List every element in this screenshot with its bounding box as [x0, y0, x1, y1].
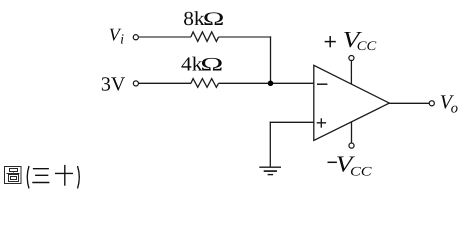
node -VCC terminal [349, 143, 354, 148]
wire corner down to junction [270, 36, 272, 83]
ground symbol [259, 167, 281, 174]
label +VCC [325, 27, 377, 53]
figure caption glyph TU (Chinese Figure) drawn [5, 167, 22, 184]
wire 3V terminal to R2 [139, 82, 192, 84]
svg-text:o: o [451, 100, 458, 116]
wire non-inverting input to ground corner [270, 121, 314, 123]
op-amp inverting input minus sign [317, 83, 327, 85]
label -VCC [328, 152, 372, 179]
figure caption parenthesis right [78, 166, 80, 188]
svg-text:CC: CC [350, 164, 372, 179]
node 3V input terminal [133, 81, 138, 86]
svg-text:3V: 3V [101, 73, 126, 95]
svg-text:Ω: Ω [203, 9, 224, 30]
op-amp non-inverting input plus sign [317, 118, 326, 127]
negative supply stub wire [351, 122, 353, 143]
label Vi [109, 25, 124, 48]
wire op-amp output [389, 102, 429, 104]
figure caption glyph SHI (ten) drawn [55, 165, 73, 186]
svg-text:8k: 8k [183, 8, 204, 30]
wire Vi terminal to R1 [138, 36, 191, 38]
wire R2 to inverting input [219, 82, 314, 84]
label 8kOhm value [183, 8, 224, 30]
label 4kOhm value [181, 53, 223, 75]
label Vo [440, 92, 458, 117]
svg-text:4k: 4k [181, 53, 202, 75]
op-amp U1 triangle [314, 65, 390, 140]
resistor R2 4k zigzag [191, 79, 219, 88]
node Vi input terminal [133, 35, 138, 40]
figure caption glyph SAN (three) drawn [32, 169, 49, 183]
junction node dot [268, 81, 274, 87]
resistor R1 8k zigzag [191, 32, 219, 42]
svg-text:i: i [120, 32, 124, 47]
positive supply stub wire [350, 61, 352, 85]
svg-text:CC: CC [357, 38, 377, 53]
node +VCC terminal [349, 55, 354, 60]
wire down to ground [269, 122, 271, 168]
node Vo output terminal [429, 101, 434, 106]
svg-text:Ω: Ω [200, 54, 223, 75]
figure caption parenthesis left [27, 166, 29, 188]
wire R1 to corner [219, 36, 272, 38]
